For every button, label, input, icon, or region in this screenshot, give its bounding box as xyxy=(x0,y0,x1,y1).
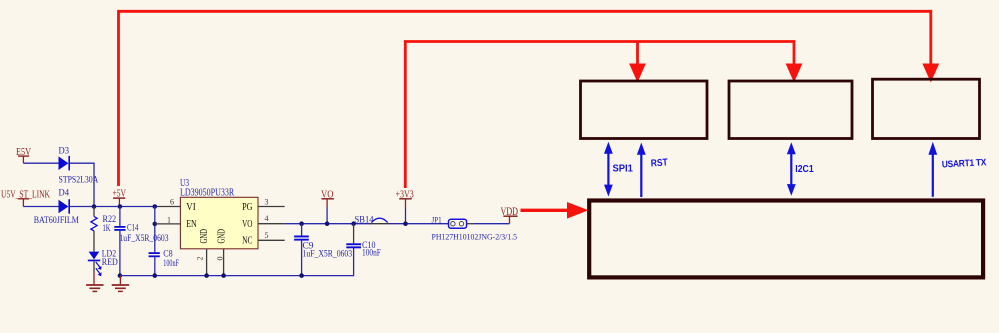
diode D3 xyxy=(59,156,69,170)
ground rail xyxy=(120,247,354,276)
svg-text:1: 1 xyxy=(167,216,171,225)
resistor R22 xyxy=(93,207,95,217)
svg-text:EN: EN xyxy=(186,219,197,230)
arrow blue USART1 TX xyxy=(932,152,934,197)
svg-text:100nF: 100nF xyxy=(163,258,179,268)
wire SB14 to JP1 xyxy=(390,223,449,225)
ground under LED xyxy=(93,272,95,284)
wire JP1 to VDD xyxy=(467,223,474,225)
arrow blue I2C1 double-headed xyxy=(790,152,792,188)
box MCU large xyxy=(589,201,983,278)
arrow blue RST xyxy=(640,152,642,197)
node junction VO xyxy=(325,221,330,226)
svg-text:100nF: 100nF xyxy=(362,248,381,258)
svg-text:2: 2 xyxy=(195,257,204,261)
arrowhead red into ST-LINK box xyxy=(922,64,939,83)
SB14 arc xyxy=(371,218,387,222)
node junction +5V xyxy=(118,204,123,209)
svg-text:5: 5 xyxy=(265,231,269,240)
svg-text:SPI1: SPI1 xyxy=(613,164,634,175)
node junction EN xyxy=(153,222,158,227)
wire VO output xyxy=(285,223,371,225)
arrowhead red into second box xyxy=(786,64,803,83)
capacitor C9 xyxy=(301,224,303,236)
wire EN/C8 branch xyxy=(154,207,156,253)
node junction GND2 rail xyxy=(204,273,209,278)
SB14 pins xyxy=(369,223,390,225)
node junction C10 xyxy=(351,221,356,226)
node junction +3V3 xyxy=(403,221,408,226)
wire main +5V rail xyxy=(70,206,158,208)
svg-text:D4: D4 xyxy=(59,189,70,199)
diode D4 xyxy=(59,200,69,214)
svg-text:GND: GND xyxy=(216,229,227,244)
wire red annotation from +3V3 up and across xyxy=(405,42,794,189)
arrow blue SPI1 double-headed xyxy=(607,151,609,188)
svg-text:I2C1: I2C1 xyxy=(795,164,814,175)
wire red branch down to first box xyxy=(636,42,639,66)
svg-text:0: 0 xyxy=(216,257,225,261)
wire E5V to D3 anode xyxy=(23,162,58,164)
svg-text:SB14: SB14 xyxy=(355,216,374,226)
svg-text:VO: VO xyxy=(242,219,253,230)
ground under rail xyxy=(119,276,121,285)
node junction C9 rail xyxy=(299,273,304,278)
box peripheral 2 xyxy=(729,81,852,139)
wire D3 cathode down to main node xyxy=(70,163,94,206)
node junction rail C8 xyxy=(153,273,158,278)
pin VO line xyxy=(258,223,285,225)
svg-text:6: 6 xyxy=(170,197,174,206)
node junction C9 xyxy=(299,221,304,226)
wire LED to ground xyxy=(93,261,95,272)
wire U5V to D4 anode xyxy=(23,206,58,208)
svg-text:STPS2L30A: STPS2L30A xyxy=(59,174,99,184)
svg-text:NC: NC xyxy=(242,236,252,247)
node junction gnd rail left xyxy=(118,273,123,278)
svg-text:3: 3 xyxy=(265,197,269,206)
wire red annotation from +5V up and across to USART box xyxy=(119,11,931,186)
svg-text:RED: RED xyxy=(102,258,118,268)
pin EN line xyxy=(155,223,181,225)
node junction VI/C8 branch xyxy=(153,204,158,209)
capacitor C14 xyxy=(119,207,121,227)
svg-text:LD39050PU33R: LD39050PU33R xyxy=(180,188,234,199)
node junction D3/D4 xyxy=(92,204,97,209)
pin NC line xyxy=(258,239,285,241)
svg-text:RST: RST xyxy=(650,157,668,169)
svg-text:PG: PG xyxy=(242,202,253,213)
svg-text:1K: 1K xyxy=(103,224,111,234)
box peripheral 1 xyxy=(581,81,708,139)
svg-text:PH127H10102JNG-2/3/1.5: PH127H10102JNG-2/3/1.5 xyxy=(432,231,518,241)
pin PG line xyxy=(258,206,285,208)
svg-text:1uF_X5R_0603: 1uF_X5R_0603 xyxy=(303,248,353,258)
LED LD2 xyxy=(89,252,100,260)
svg-text:1uF_X5R_0603: 1uF_X5R_0603 xyxy=(120,233,169,243)
pin GND 2 line xyxy=(206,249,208,276)
pin VI line xyxy=(158,206,181,208)
pin GND 0 line xyxy=(223,249,225,276)
capacitor C8 xyxy=(149,252,160,254)
svg-text:4: 4 xyxy=(265,214,269,223)
regulator U3 body xyxy=(180,197,258,249)
svg-text:JP1: JP1 xyxy=(432,214,442,224)
capacitor C10 xyxy=(353,224,355,244)
arrow VDD red into MCU box xyxy=(521,209,569,212)
arrowhead red into first box xyxy=(629,64,646,83)
node junction GND0 rail xyxy=(221,273,226,278)
svg-text:D3: D3 xyxy=(59,146,70,156)
svg-text:GND: GND xyxy=(199,229,210,244)
svg-text:VI: VI xyxy=(186,202,196,213)
svg-text:BAT60JFILM: BAT60JFILM xyxy=(34,215,79,225)
box peripheral 3 xyxy=(873,79,980,138)
